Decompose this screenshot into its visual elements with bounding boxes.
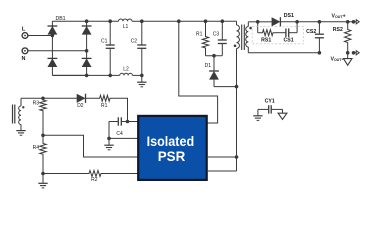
svg-text:R1: R1: [196, 32, 203, 38]
svg-text:C2: C2: [131, 39, 138, 45]
svg-text:D2: D2: [77, 103, 84, 109]
svg-text:DB1: DB1: [55, 16, 65, 22]
svg-text:L1: L1: [123, 24, 129, 30]
svg-text:R1: R1: [101, 103, 108, 109]
svg-text:R2: R2: [91, 177, 98, 183]
svg-text:R3: R3: [33, 100, 40, 106]
svg-text:CY1: CY1: [265, 98, 275, 104]
svg-text:CS2: CS2: [306, 29, 316, 35]
svg-text:RS1: RS1: [261, 38, 271, 44]
svg-text:N: N: [22, 56, 26, 62]
svg-text:DS1: DS1: [284, 13, 294, 19]
svg-text:D1: D1: [205, 63, 212, 69]
svg-text:C3: C3: [213, 32, 220, 38]
svg-text:Isolated: Isolated: [147, 133, 195, 149]
svg-text:CS1: CS1: [284, 38, 294, 44]
svg-text:RS2: RS2: [333, 27, 343, 33]
svg-text:C4: C4: [116, 131, 123, 137]
svg-text:R4: R4: [33, 145, 40, 151]
svg-text:L2: L2: [123, 66, 129, 72]
svg-text:PSR: PSR: [158, 148, 186, 164]
svg-text:C1: C1: [101, 39, 108, 45]
